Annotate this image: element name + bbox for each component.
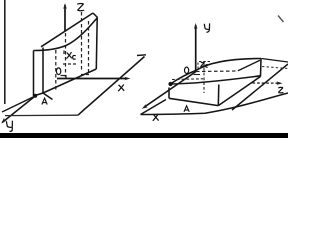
box right vertical edge (95, 18, 98, 70)
box back-left vertical edge (42, 48, 44, 94)
box (tall slab): front-left vertical edge (33, 51, 35, 97)
bottom black bar (0, 133, 288, 138)
box front-right vertical edge (217, 85, 220, 106)
y label (204, 23, 209, 32)
xc dashed horizontal (63, 63, 76, 65)
box front-left vertical edge (168, 88, 170, 99)
x label (153, 114, 159, 121)
z label (right fig) (278, 87, 283, 92)
zc dashed vertical (203, 63, 205, 93)
plane front edge (141, 93, 289, 115)
z label (77, 3, 84, 10)
plane left edge (behind box) (141, 100, 167, 115)
box top-back long edge (41, 13, 93, 47)
box bottom-back short edge (43, 93, 53, 100)
ground plane top-right terminal bar (137, 54, 146, 57)
corner dot (168, 82, 172, 86)
box bottom-front long edge (43, 69, 96, 93)
box top-back edge (171, 59, 262, 85)
z axis rising bit to apex (238, 60, 260, 71)
y axis (vertical, arrow at top) (195, 25, 197, 70)
hidden edge dashed vertical 1 (81, 12, 83, 71)
zc label (201, 62, 208, 67)
z axis (horizontal, arrow at right) (253, 82, 279, 84)
ground plane right edge (long diagonal) (78, 57, 145, 116)
origin corner tick (right fig) (194, 74, 201, 76)
ground plane back edge (left part) (2, 96, 35, 112)
x label (118, 85, 124, 92)
box apex short edge (93, 13, 98, 18)
faint dotted line right of box (262, 67, 288, 69)
A label (42, 98, 47, 104)
box bottom-left short edge (34, 93, 44, 96)
0 label (right fig) (185, 67, 189, 73)
plane right edge diagonal (232, 64, 288, 110)
box side bottom edge (218, 77, 260, 106)
dashed projection line across top face (172, 78, 203, 81)
xc tick (63, 51, 65, 55)
zc dashed vertical small (197, 63, 199, 71)
z axis hidden part (dashed, across box top) (196, 70, 238, 73)
hidden edge dashed vertical 2 (88, 21, 90, 73)
stray mark top right (278, 16, 284, 23)
origin corner tick (61, 76, 67, 79)
zc dashed horizontal (199, 61, 210, 63)
x axis (57, 78, 127, 80)
xc label (67, 52, 76, 59)
y label (6, 121, 12, 132)
z axis (vertical, arrow at top) (64, 5, 66, 31)
hidden dashed vertical below origin (55, 50, 57, 90)
A label (right fig) (184, 106, 189, 112)
z axis hidden part (dashed) (65, 33, 67, 77)
box right vertical edge (260, 58, 263, 76)
plane back edge (right of box) (262, 59, 289, 63)
box front bottom edge (169, 98, 218, 105)
box top-front long edge (sagging) (34, 18, 98, 51)
0 label (origin) (56, 68, 60, 75)
box top-front edge (171, 76, 261, 84)
node A dot (33, 94, 37, 98)
hidden edge dashed horizontal (81, 74, 91, 76)
left crop frame line (4, 0, 6, 104)
ground plane front/bottom edge (5, 114, 78, 116)
x axis (to lower left, arrow at end) (144, 72, 196, 108)
y axis (to lower left, arrow at end) (2, 96, 35, 123)
